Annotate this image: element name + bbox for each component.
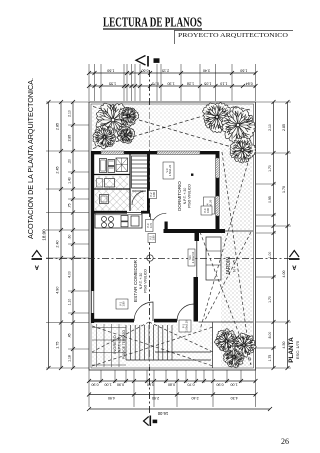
svg-text:1.75: 1.75 [56,342,60,349]
svg-text:.75: .75 [68,203,72,208]
garden low wall line [225,230,254,232]
window hatch right wall lower [216,196,220,216]
svg-text:0.90: 0.90 [206,207,210,213]
svg-text:8.00: 8.00 [268,332,272,339]
window hatch right wall upper [216,158,220,178]
bath tub [100,159,107,173]
svg-text:4.90: 4.90 [108,396,115,400]
tree group jardin bottom [214,329,256,368]
label JARDIN [226,257,237,275]
svg-text:1.00: 1.00 [268,252,272,259]
wall stub dormitorio left end [165,222,168,230]
wall dormitorio right [216,151,220,158]
svg-text:ESC: 1/75: ESC: 1/75 [295,340,300,359]
tree group top-right [202,103,255,163]
wall house top [91,151,101,154]
svg-text:2.40: 2.40 [56,240,60,247]
jardin-ingreso divider [212,323,214,369]
tree group top-left [93,103,139,149]
svg-text:18.00: 18.00 [42,229,47,241]
dimension row bottom 2 [87,393,258,401]
svg-text:1.05: 1.05 [204,81,211,85]
svg-text:1.00: 1.00 [230,383,237,387]
svg-text:1.70: 1.70 [268,165,272,172]
wall house left [91,151,94,291]
bath shower [116,158,128,172]
garden patio top stipple [92,105,253,149]
ingreso terrace stipple [92,324,212,367]
section marker B top [136,56,160,67]
svg-text:0.60: 0.60 [141,68,148,72]
garden side strip stipple [221,149,253,367]
svg-text:2.10: 2.10 [268,124,272,131]
window hatch top wall dormitorio [157,151,200,154]
svg-text:A: A [34,264,39,270]
door estar-terrace arc [177,304,194,321]
svg-text:1.18: 1.18 [68,355,72,362]
svg-text:.60: .60 [68,235,72,240]
svg-text:N.P.T. +.30: N.P.T. +.30 [139,273,143,290]
svg-text:0.84: 0.84 [246,81,253,85]
svg-text:PISO DE TERRAZO: PISO DE TERRAZO [122,329,126,359]
svg-text:JARDIN: JARDIN [226,257,232,275]
svg-text:0.75: 0.75 [152,81,159,85]
svg-text:.45: .45 [68,333,72,338]
svg-text:4.50: 4.50 [282,342,286,349]
svg-text:1.55: 1.55 [109,81,116,85]
wall bath bottom thin [94,188,130,190]
svg-text:1.30: 1.30 [167,81,174,85]
svg-text:1.10: 1.10 [220,81,227,85]
svg-text:2.85: 2.85 [282,124,286,131]
svg-text:N.P.T. +.30: N.P.T. +.30 [183,188,187,205]
section line B-B vertical [149,70,151,415]
door dormitorio arc [151,213,167,229]
svg-text:2.90: 2.90 [152,396,159,400]
svg-text:0.90: 0.90 [91,383,98,387]
kitchen counter [95,213,142,229]
label box V-1 [116,299,128,309]
svg-text:1.60: 1.60 [107,68,114,72]
section marker A right [289,251,300,270]
svg-text:1.60: 1.60 [240,68,247,72]
svg-text:1.00: 1.00 [104,383,111,387]
ingreso steps [126,325,211,360]
svg-text:1.28: 1.28 [187,81,194,85]
property boundary outer [89,102,256,370]
wall estar right + window bar [196,241,198,277]
svg-text:0.70: 0.70 [149,222,153,228]
subtitle rule [174,31,293,45]
label box P-2 [149,191,157,199]
svg-text:1.10: 1.10 [68,299,72,306]
svg-text:0.70: 0.70 [187,383,194,387]
dimension column right 2 [282,100,290,370]
section marker B bottom [144,416,158,427]
svg-text:1.00x2.10: 1.00x2.10 [185,320,189,332]
svg-text:PLANTA: PLANTA [288,337,295,363]
svg-text:ACOTACION DE LA PLANTA ARQUITE: ACOTACION DE LA PLANTA ARQUITECTONICA. [26,78,35,239]
dimension row top 2 [87,81,258,88]
svg-text:0.80: 0.80 [152,191,156,197]
svg-text:PROYECTO ARQUITECTONICO: PROYECTO ARQUITECTONICO [178,32,288,39]
wall interior vertical (stair/dormitorio) [147,154,150,212]
svg-text:1.80: 1.80 [122,301,126,307]
wall interior horizontal kitchen [94,211,127,214]
svg-text:N + .45: N + .45 [233,260,237,272]
laundry fixtures [97,179,115,188]
label PLANTA [288,337,300,363]
svg-text:A: A [291,264,296,270]
svg-text:2.40x2.10: 2.40x2.10 [191,251,195,263]
bath wc boxes [108,160,115,173]
terrace steps jardin [206,237,221,280]
svg-text:1.40: 1.40 [68,177,72,184]
dimension column left A 18.00 [42,100,51,370]
svg-text:1.50x1.20: 1.50x1.20 [168,164,172,176]
svg-text:4.00: 4.00 [68,271,72,278]
extension lines bottom [89,370,256,407]
title LECTURA DE PLANOS [103,15,202,30]
label INGRESO [112,329,126,359]
svg-text:4.30: 4.30 [231,396,238,400]
wall house bottom [91,319,134,323]
svg-text:0.80: 0.80 [168,383,175,387]
svg-text:26: 26 [281,437,289,446]
door entry arc [134,302,153,321]
door corridor arc [132,191,146,205]
label box V-4 [204,197,215,214]
section crossing node [147,255,153,261]
bath wall bottom at 174.5 [94,174,130,176]
svg-text:1.80: 1.80 [151,235,155,241]
label box V-2 [148,234,156,243]
stair flight [132,156,148,188]
extension lines top [89,64,256,101]
svg-text:2.15: 2.15 [162,68,169,72]
svg-text:PISO VINILICO: PISO VINILICO [188,184,192,208]
label DORMITORIO [177,181,192,211]
svg-text:DORMITORIO: DORMITORIO [177,181,182,211]
svg-text:0.60: 0.60 [147,383,154,387]
section marker A left [32,251,43,270]
svg-text:PISO VINILICO: PISO VINILICO [144,269,148,293]
svg-text:2.10: 2.10 [68,110,72,117]
svg-text:1.70: 1.70 [268,296,272,303]
jardin north edge line [199,321,254,323]
label box M-1 [188,249,195,266]
svg-text:0.95: 0.95 [268,196,272,203]
svg-text:16.00: 16.00 [157,411,168,416]
window hatch top wall bath [101,151,124,154]
dashed diagonals top garden [93,107,250,149]
svg-text:.20: .20 [68,159,72,164]
dimension row bottom total 16.00 [87,407,272,416]
dashed diagonals ingreso [92,322,213,366]
label box P-1 [179,320,191,332]
svg-text:2.40: 2.40 [191,396,198,400]
dimension row top 1 [87,68,258,75]
svg-text:0.90: 0.90 [117,383,124,387]
extension lines left [46,102,89,368]
svg-text:LECTURA DE PLANOS: LECTURA DE PLANOS [103,15,202,30]
wall bath right thin [129,154,131,211]
svg-text:4.90: 4.90 [56,287,60,294]
wall dormitorio bottom [164,229,226,233]
dimension column left B [56,100,64,370]
extension lines right [256,102,291,368]
svg-text:4.00: 4.00 [282,271,286,278]
property boundary inner [91,104,254,368]
window left wall (thin) [91,291,93,313]
dimension row bottom 1 [87,379,258,387]
svg-text:2.45: 2.45 [56,166,60,173]
dimension column right 1 [268,100,276,370]
svg-text:2.85: 2.85 [56,123,60,130]
svg-text:INGRESO: INGRESO [112,335,117,353]
svg-text:0.90: 0.90 [216,383,223,387]
section line A-A horizontal [46,258,289,260]
kitchen appliance [100,195,109,204]
svg-text:1.70: 1.70 [282,186,286,193]
svg-text:2.85: 2.85 [68,135,72,142]
label box P-4 [201,206,212,215]
wall stub estar right top [195,233,200,241]
label ESTAR COMEDOR [133,259,148,302]
dashed diagonals side jardin [200,152,251,365]
dimension column left C [68,100,76,370]
svg-text:3.40: 3.40 [203,68,210,72]
kitchen floor tile grid [95,176,128,211]
ingreso floor tile grid [92,324,126,367]
dot dormitorio [191,174,193,176]
label box P-3 [146,220,154,232]
label box V-3 [163,162,174,179]
svg-text:1.75: 1.75 [268,355,272,362]
